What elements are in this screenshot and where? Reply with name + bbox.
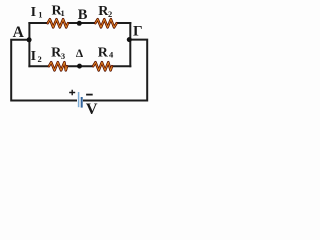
svg-text:1: 1: [38, 10, 42, 20]
svg-text:I: I: [31, 49, 36, 64]
svg-text:2: 2: [108, 9, 112, 19]
svg-text:I: I: [31, 5, 36, 20]
svg-text:A: A: [13, 24, 25, 41]
svg-text:V: V: [86, 99, 98, 118]
svg-text:Δ: Δ: [76, 48, 84, 60]
svg-text:2: 2: [38, 54, 42, 64]
svg-text:B: B: [78, 7, 88, 23]
svg-text:R: R: [98, 45, 109, 60]
svg-text:3: 3: [61, 51, 65, 61]
svg-text:1: 1: [61, 8, 65, 18]
svg-text:Γ: Γ: [133, 24, 143, 40]
